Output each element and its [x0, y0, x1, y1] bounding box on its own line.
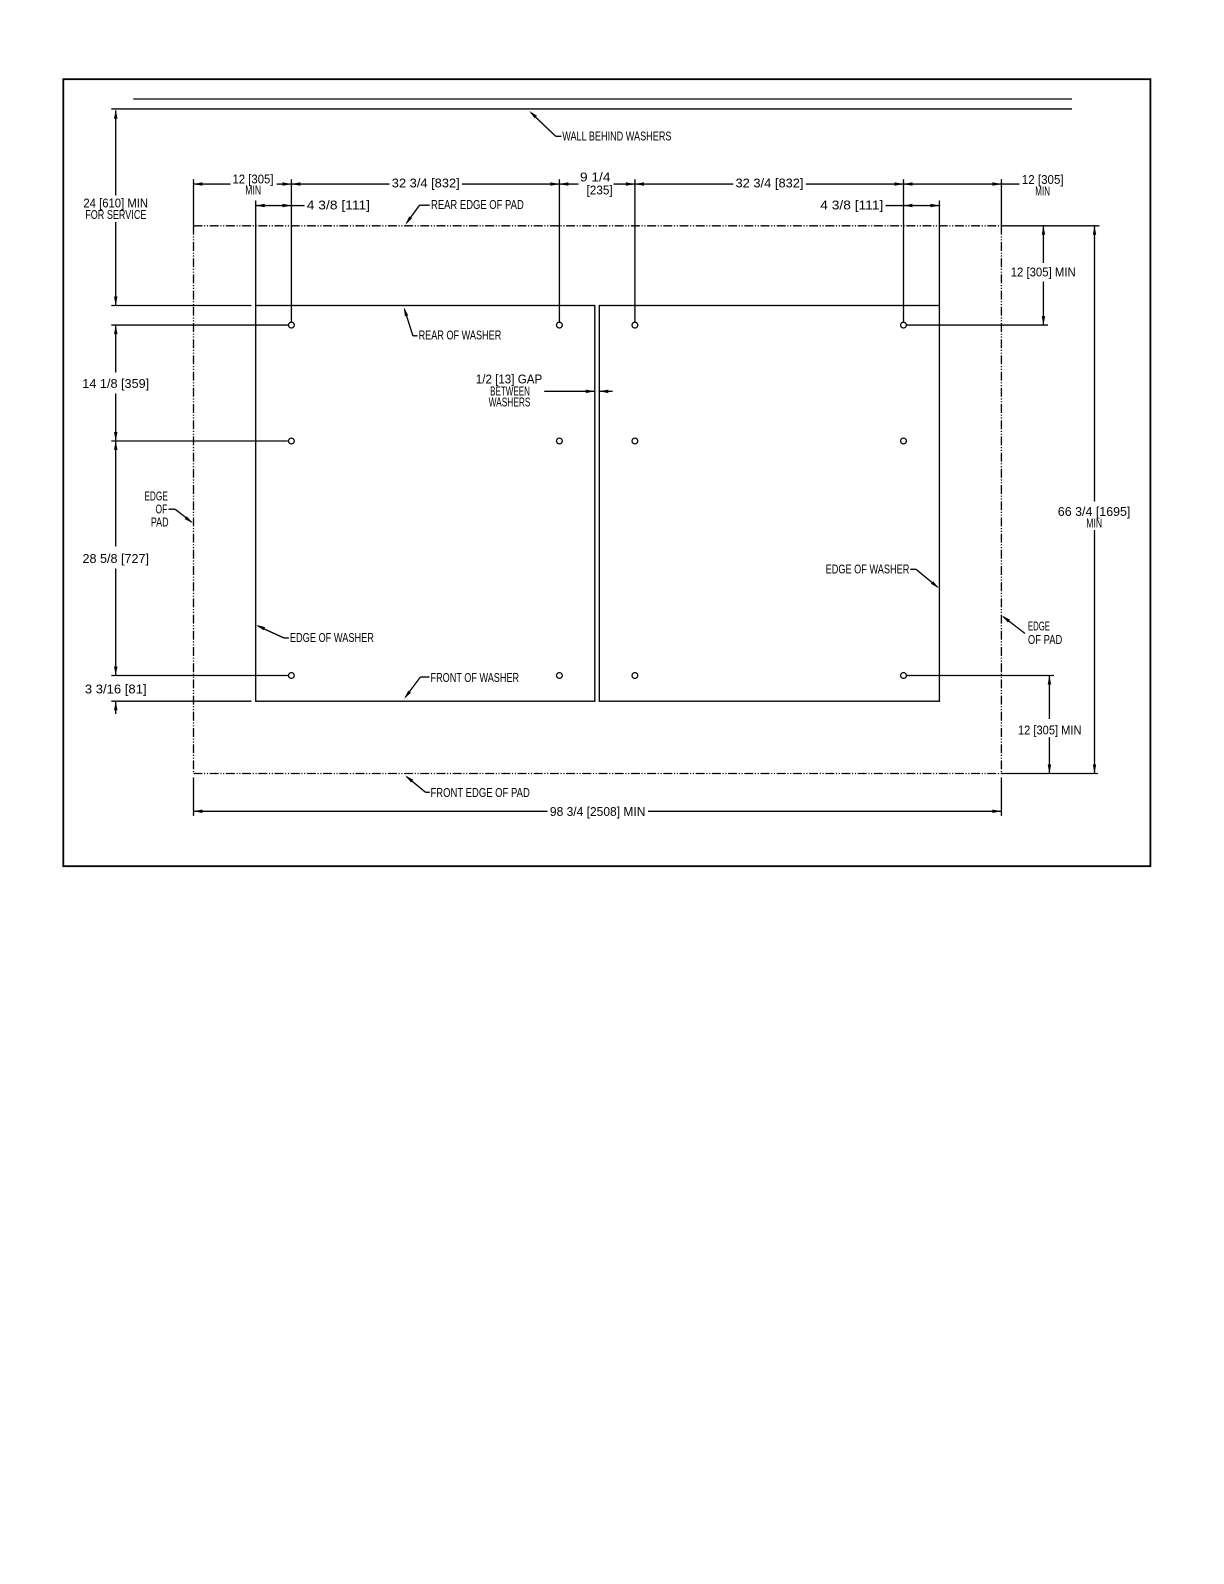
rear of washer extension line (left) [111, 305, 251, 307]
label EDGE OF PAD (left) with leader [144, 489, 192, 530]
label EDGE OF WASHER (right) with leader [826, 562, 939, 589]
extension line pad left edge [193, 179, 195, 226]
extension line hole col 2 [558, 179, 560, 321]
dim 14 1/8 [359] (vertical) [82, 325, 149, 441]
svg-text:4 3/8 [111]: 4 3/8 [111] [820, 198, 883, 213]
svg-text:MIN: MIN [245, 183, 261, 198]
washer 1 outline [256, 306, 595, 702]
svg-text:MIN: MIN [1035, 183, 1050, 198]
dim 24 [610] MIN FOR SERVICE (vertical) [83, 110, 148, 306]
extension line hole col 1 [290, 179, 292, 321]
wall behind washers - upper line [133, 98, 1072, 100]
svg-text:OF PAD: OF PAD [1028, 632, 1062, 647]
svg-text:98 3/4 [2508] MIN: 98 3/4 [2508] MIN [550, 804, 646, 819]
svg-text:14 1/8 [359]: 14 1/8 [359] [82, 376, 149, 391]
pad front-edge extension line (right) [1001, 773, 1098, 775]
washer mounting bolt holes (12) [289, 322, 907, 678]
dim 4 3/8 [111] left [256, 198, 370, 213]
washer front extension line (left) [111, 700, 251, 702]
label 1/2 [13] GAP BETWEEN WASHERS with gap arrows [476, 372, 613, 410]
dim 66 3/4 [1695] MIN (vertical) [1058, 226, 1131, 774]
dim 32 3/4 [832] left [291, 175, 559, 190]
svg-text:32 3/4 [832]: 32 3/4 [832] [392, 175, 460, 190]
pad front edge (dash-dot) [194, 773, 1002, 775]
dim 4 3/8 [111] right [820, 198, 939, 213]
hole row C extension line (right) [907, 675, 1054, 677]
svg-text:FOR SERVICE: FOR SERVICE [85, 207, 146, 222]
pad rear-edge extension line (right) [1001, 225, 1099, 227]
svg-text:3 3/16 [81]: 3 3/16 [81] [85, 682, 147, 697]
dim 32 3/4 [832] right [635, 175, 904, 190]
extension line washer2 right edge [938, 201, 940, 306]
label WALL BEHIND WASHERS with leader [529, 111, 672, 144]
label FRONT OF WASHER with leader [404, 670, 519, 699]
dim 28 5/8 [727] (vertical) [83, 441, 150, 676]
svg-text:4 3/8 [111]: 4 3/8 [111] [307, 198, 370, 213]
label FRONT EDGE OF PAD with leader [405, 776, 530, 800]
svg-text:12 [305] MIN: 12 [305] MIN [1011, 265, 1076, 280]
svg-text:12 [305] MIN: 12 [305] MIN [1018, 722, 1082, 737]
washer 2 outline [599, 306, 939, 702]
extension line hole col 4 [903, 179, 905, 321]
svg-text:WALL BEHIND WASHERS: WALL BEHIND WASHERS [562, 129, 672, 144]
wall behind washers - lower line [111, 108, 1072, 110]
svg-text:FRONT EDGE OF PAD: FRONT EDGE OF PAD [431, 785, 530, 800]
svg-text:EDGE OF WASHER: EDGE OF WASHER [826, 562, 910, 577]
dim 9 1/4 [235] between hole columns [559, 169, 635, 197]
pad left edge (dash-dot) [193, 226, 195, 774]
hole row A extension line (left) [111, 324, 288, 326]
pad right edge (dash-dot) [1000, 226, 1002, 774]
hole row B extension line (left) [111, 440, 288, 442]
hole row A extension line (right) [907, 324, 1048, 326]
svg-text:FRONT OF WASHER: FRONT OF WASHER [431, 670, 520, 685]
label REAR EDGE OF PAD with leader [405, 197, 524, 225]
hole row C extension line (left) [111, 675, 288, 677]
drawing frame border [63, 79, 1150, 866]
svg-text:PAD: PAD [151, 515, 169, 530]
svg-text:REAR OF WASHER: REAR OF WASHER [419, 328, 502, 343]
dim 3 3/16 [81] (vertical, arrows outside) [85, 682, 147, 715]
dim 98 3/4 [2508] MIN (horizontal) [194, 804, 1002, 819]
dim 12 [305] MIN (right top, vertical) [1011, 226, 1076, 325]
dim 12 [305] MIN (right bottom, vertical) [1018, 676, 1082, 774]
extension line washer1 left edge [255, 201, 257, 306]
pad right bottom extension line [1000, 777, 1002, 816]
svg-text:EDGE OF WASHER: EDGE OF WASHER [290, 630, 374, 645]
svg-text:28 5/8 [727]: 28 5/8 [727] [83, 551, 150, 566]
svg-text:MIN: MIN [1086, 516, 1102, 531]
pad rear edge (dash-dot) [194, 225, 1002, 227]
svg-text:WASHERS: WASHERS [489, 394, 531, 409]
dim 12 [305] MIN top-left [194, 172, 292, 198]
dim 12 [305] MIN top-right [904, 172, 1064, 199]
extension line hole col 3 [634, 179, 636, 321]
svg-text:[235]: [235] [587, 183, 613, 198]
svg-text:REAR EDGE OF PAD: REAR EDGE OF PAD [431, 197, 524, 212]
pad left bottom extension line [193, 777, 195, 816]
label EDGE OF PAD (right) with leader [1002, 616, 1062, 648]
label REAR OF WASHER with leader [404, 307, 502, 342]
svg-text:32 3/4 [832]: 32 3/4 [832] [736, 175, 804, 190]
extension line pad right edge [1000, 179, 1002, 226]
label EDGE OF WASHER (left) with leader [256, 625, 374, 645]
